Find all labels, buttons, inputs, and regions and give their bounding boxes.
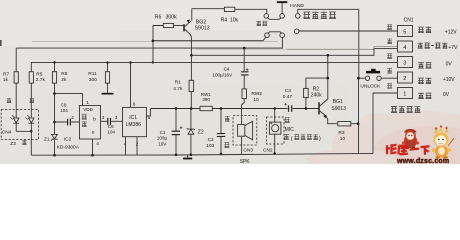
svg-text:HAND: HAND bbox=[290, 3, 304, 9]
svg-text:Z2: Z2 bbox=[198, 130, 204, 136]
svg-text:b: b bbox=[93, 117, 96, 123]
wire collector BG2 to R4 bbox=[192, 9, 267, 21]
svg-text:R11: R11 bbox=[88, 71, 97, 77]
svg-text:+12V: +12V bbox=[445, 29, 457, 35]
svg-text:R4: R4 bbox=[221, 17, 228, 23]
ground below R11 bbox=[102, 93, 114, 95]
svg-text:1k: 1k bbox=[3, 77, 9, 83]
label press key switch bbox=[303, 12, 310, 19]
resistor R7 1k bbox=[15, 48, 17, 118]
svg-text:2k: 2k bbox=[61, 77, 67, 83]
svg-text:2: 2 bbox=[71, 115, 74, 121]
svg-text:IC2: IC2 bbox=[64, 137, 72, 143]
label red wire left bbox=[7, 98, 11, 103]
svg-text:CN1: CN1 bbox=[404, 18, 414, 24]
svg-text:10: 10 bbox=[253, 97, 259, 103]
svg-text:4: 4 bbox=[403, 45, 406, 51]
wire CN4 down to ground bus bbox=[30, 140, 32, 156]
IC1 LM386 box bbox=[123, 107, 147, 136]
handset symbol T-bar HAND bbox=[277, 1, 288, 3]
capacitor C2 103 bbox=[220, 109, 222, 154]
svg-text:4: 4 bbox=[96, 141, 99, 147]
connector CN3 dashed box bbox=[233, 116, 257, 145]
resistor R1 4.7k bbox=[190, 55, 192, 108]
hook switch upper pole bbox=[264, 14, 269, 19]
svg-text:C6: C6 bbox=[108, 124, 114, 129]
wire IC1 pin5 riser to signal line bbox=[146, 109, 150, 117]
transistor BG2 S9013 bbox=[174, 25, 184, 27]
wire R8 bottom to IC2 VDD bbox=[55, 94, 83, 106]
svg-text:LM386: LM386 bbox=[126, 122, 142, 128]
svg-text:4.7k: 4.7k bbox=[173, 86, 183, 92]
svg-text:C1: C1 bbox=[160, 130, 166, 135]
transistor BG1 S9013 bbox=[318, 102, 319, 114]
wire RW2 to speaker bbox=[242, 99, 245, 125]
svg-text:IC1: IC1 bbox=[129, 115, 137, 121]
resistor R6 300k bbox=[163, 23, 173, 27]
svg-text:100µ: 100µ bbox=[157, 136, 168, 141]
wire hook lower-left to R6 node bbox=[153, 37, 266, 41]
wire LED join bbox=[16, 131, 31, 139]
paper background bbox=[0, 0, 460, 164]
svg-text:3: 3 bbox=[115, 115, 118, 121]
svg-text:1: 1 bbox=[403, 92, 406, 98]
svg-text:VDD: VDD bbox=[83, 107, 93, 112]
svg-text:380: 380 bbox=[202, 97, 210, 102]
press key switch contacts bbox=[296, 14, 301, 19]
microphone MIC bbox=[274, 109, 276, 123]
svg-text:104: 104 bbox=[107, 130, 115, 135]
svg-text:2: 2 bbox=[403, 76, 406, 82]
svg-text:RW2: RW2 bbox=[251, 91, 262, 97]
svg-text:6: 6 bbox=[133, 102, 136, 108]
pin5 label receive +12V bbox=[418, 27, 424, 33]
watermark pink blob bbox=[332, 111, 460, 181]
watermark red text wei ku yi xia bbox=[386, 144, 430, 155]
wire press-key upper to unlock column bbox=[298, 9, 359, 78]
node C2 tap bbox=[220, 107, 223, 110]
label yellow wire colors note bbox=[284, 134, 289, 139]
svg-text:S9013: S9013 bbox=[195, 26, 210, 32]
capacitor C4 100u/16V bbox=[243, 48, 245, 89]
+7V rail line A bbox=[16, 38, 282, 49]
node Z1 ground bbox=[53, 154, 56, 157]
edge artifact left bbox=[0, 40, 2, 46]
svg-text:R7: R7 bbox=[3, 72, 9, 78]
svg-text:10k: 10k bbox=[230, 17, 239, 23]
LED red bbox=[13, 118, 19, 123]
label black wire spk bbox=[224, 143, 229, 148]
resistor R11 300 bbox=[107, 63, 109, 93]
pin2 label unlock +10V bbox=[418, 78, 424, 84]
svg-text:300k: 300k bbox=[166, 14, 178, 20]
svg-text:BG2: BG2 bbox=[196, 20, 206, 26]
svg-text:104: 104 bbox=[60, 108, 68, 113]
pin4 label send feed +7V bbox=[418, 43, 423, 49]
wire IC1 pin4 pin2 to ground bbox=[126, 137, 138, 156]
svg-text:CN4: CN4 bbox=[2, 130, 12, 136]
svg-text:100µ/16V: 100µ/16V bbox=[212, 73, 233, 78]
ghost scan echo of emitter rail bbox=[196, 48, 368, 50]
svg-text:Z1: Z1 bbox=[44, 136, 50, 142]
resistor R3 10 bbox=[328, 122, 359, 124]
svg-text:5: 5 bbox=[403, 30, 406, 36]
node R6-left junction bbox=[152, 39, 155, 42]
emitter rail to CN1 pin4 bbox=[191, 49, 397, 56]
wire color labels column bbox=[387, 25, 392, 30]
node R8 top bbox=[53, 61, 55, 63]
connector CN4 dashed box bbox=[1, 110, 38, 140]
node riser to green bus bbox=[152, 61, 154, 63]
svg-text:0.47: 0.47 bbox=[283, 94, 293, 100]
svg-text:CN3: CN3 bbox=[243, 148, 253, 154]
svg-text:300: 300 bbox=[89, 77, 97, 83]
capacitor C8 104 bbox=[55, 121, 80, 123]
label green wire mic bbox=[285, 118, 290, 123]
green bus line B bbox=[31, 62, 397, 71]
wire node down to C8 tap bbox=[54, 94, 56, 134]
resistor R4 10k bbox=[224, 7, 234, 11]
node MIC tap bbox=[273, 107, 276, 110]
hook switch lower pole bbox=[265, 33, 270, 38]
wire unlock column down to bus bbox=[358, 78, 360, 153]
zener Z1 bbox=[52, 134, 58, 139]
node emitter bbox=[190, 54, 193, 57]
node C4 tap bbox=[243, 47, 246, 50]
svg-text:): ) bbox=[319, 136, 321, 142]
node C1 tap bbox=[175, 107, 178, 110]
signal line bbox=[150, 108, 318, 110]
wire CN1 pin1 white riser bbox=[373, 93, 398, 153]
svg-text:C3: C3 bbox=[285, 88, 291, 94]
svg-text:CN2: CN2 bbox=[263, 148, 273, 154]
svg-text:R5: R5 bbox=[36, 72, 42, 78]
node R8 bottom bbox=[53, 92, 56, 95]
svg-text:R3: R3 bbox=[338, 130, 344, 136]
node R11 top bbox=[106, 61, 108, 63]
potentiometer RW1 380 bbox=[200, 106, 212, 110]
svg-text:0V: 0V bbox=[443, 92, 450, 98]
wire black to CN1 pin5 bbox=[299, 30, 398, 32]
LED purple bbox=[29, 118, 35, 123]
faint wire rail to CN1 pin4 red bbox=[287, 47, 398, 50]
ground bus bottom bbox=[31, 153, 373, 155]
pushbutton UNLOCK bbox=[359, 77, 398, 79]
svg-text:3: 3 bbox=[403, 61, 406, 67]
capacitor C1 100u 16V bbox=[175, 109, 177, 155]
svg-text:3: 3 bbox=[102, 115, 105, 121]
svg-text:+7V: +7V bbox=[448, 45, 458, 51]
label red wire spk bbox=[225, 116, 230, 121]
svg-text:Z3: Z3 bbox=[10, 141, 16, 147]
IC2 KD-9300A box bbox=[80, 106, 101, 140]
svg-text:e: e bbox=[92, 131, 95, 136]
node IC1 pin6 riser bbox=[129, 61, 131, 63]
node R1 bottom bbox=[190, 107, 193, 110]
svg-text:R1: R1 bbox=[175, 80, 181, 86]
pin3 label doorbell 0V bbox=[418, 62, 424, 68]
svg-text:C4: C4 bbox=[224, 67, 230, 72]
svg-text:www.dzsc.com: www.dzsc.com bbox=[396, 158, 449, 164]
pin1 label ground 0V bbox=[418, 93, 424, 99]
node unlock bbox=[357, 77, 360, 80]
wire R6 left riser bbox=[153, 26, 163, 63]
resistor R5 2.7k bbox=[30, 83, 32, 118]
svg-text:2.7k: 2.7k bbox=[36, 77, 46, 83]
svg-text:KD-9300A: KD-9300A bbox=[57, 145, 80, 151]
svg-text:C8: C8 bbox=[61, 103, 67, 108]
svg-text:(: ( bbox=[291, 136, 293, 142]
potentiometer RW2 10 bbox=[242, 89, 247, 99]
svg-text:S9013: S9013 bbox=[331, 106, 346, 112]
svg-text:R8: R8 bbox=[61, 71, 67, 77]
watermark mascot left bbox=[402, 129, 419, 149]
svg-text:C2: C2 bbox=[208, 137, 214, 143]
svg-text:R6: R6 bbox=[155, 14, 162, 20]
svg-text:MIC: MIC bbox=[285, 127, 295, 133]
svg-text:BG1: BG1 bbox=[333, 99, 343, 105]
node BG1 collector top bbox=[327, 54, 330, 57]
capacitor C6 104 bbox=[107, 118, 108, 125]
connector CN2 dashed box bbox=[267, 117, 285, 144]
label hook switch bbox=[257, 21, 261, 26]
label purple wire bbox=[30, 98, 35, 102]
svg-text:1: 1 bbox=[86, 100, 89, 106]
svg-text:16V: 16V bbox=[158, 141, 167, 146]
wire IC2 pin4 to ground bus bbox=[92, 139, 94, 155]
zener Z2 bbox=[190, 109, 192, 155]
speaker SPK bbox=[238, 125, 245, 137]
wire IC1 pin6 riser bbox=[130, 63, 132, 108]
ghost scan echo of +7V rail bbox=[32, 41, 278, 43]
svg-text:R2: R2 bbox=[313, 86, 320, 92]
svg-text:0V: 0V bbox=[446, 61, 453, 67]
svg-text:+10V: +10V bbox=[443, 77, 455, 83]
note to corridor door bbox=[391, 106, 397, 112]
svg-text:UNLOCK: UNLOCK bbox=[360, 84, 381, 90]
watermark mascot monkey king right bbox=[432, 125, 454, 159]
capacitor C3 0.47 bbox=[288, 105, 289, 112]
svg-text:240k: 240k bbox=[311, 93, 322, 99]
resistor R2 240k bbox=[306, 55, 328, 108]
svg-text:103: 103 bbox=[206, 143, 214, 149]
label trigger vertical chars bbox=[82, 114, 87, 119]
wire IC2 pin3 to C6 bbox=[101, 120, 108, 122]
svg-text:SPK: SPK bbox=[240, 159, 251, 164]
ground symbol mid bus bbox=[187, 155, 189, 158]
resistor R8 2k bbox=[54, 63, 56, 94]
svg-text:10: 10 bbox=[340, 136, 346, 142]
